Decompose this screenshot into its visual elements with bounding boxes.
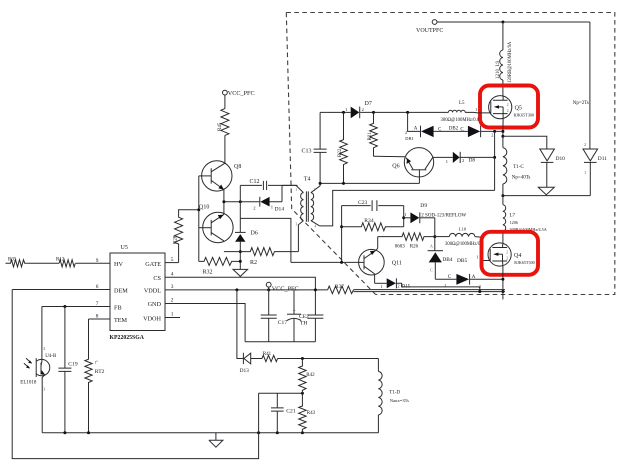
svg-text:1: 1 bbox=[475, 107, 477, 112]
svg-text:VCC_PFC: VCC_PFC bbox=[228, 90, 255, 97]
svg-text:C21: C21 bbox=[286, 408, 296, 414]
svg-text:2 SOD-123/REFLOW: 2 SOD-123/REFLOW bbox=[421, 214, 466, 219]
svg-text:t°: t° bbox=[95, 359, 98, 364]
inductor L5 bbox=[441, 101, 480, 123]
svg-text:3: 3 bbox=[171, 284, 174, 290]
resistor R21 bbox=[368, 112, 378, 156]
svg-text:Q5: Q5 bbox=[515, 106, 522, 112]
svg-text:C23: C23 bbox=[358, 200, 368, 206]
capacitor C23 bbox=[342, 200, 404, 211]
wire D9 to gate row vertical bbox=[434, 218, 436, 251]
wire Q8 emitter to node bbox=[223, 190, 225, 202]
svg-text:300Ω@100MHz/0.8: 300Ω@100MHz/0.8 bbox=[441, 118, 480, 123]
svg-text:VOUTPFC: VOUTPFC bbox=[416, 28, 443, 34]
wire FB pin7 bbox=[42, 306, 110, 308]
svg-text:Q4: Q4 bbox=[514, 253, 521, 259]
svg-text:D15: D15 bbox=[402, 285, 411, 290]
wire Q5 source down bbox=[502, 119, 504, 148]
svg-text:RJK65T300: RJK65T300 bbox=[514, 260, 534, 265]
transistor Q10 bbox=[199, 205, 233, 243]
wire gate drive rail bbox=[320, 111, 491, 114]
svg-text:300Ω@100MHz/0.8: 300Ω@100MHz/0.8 bbox=[445, 242, 484, 247]
wire DEM pin6 (left loop top) bbox=[12, 289, 110, 291]
resistor R45 bbox=[218, 109, 229, 136]
resistor R32 bbox=[199, 257, 241, 275]
svg-text:1: 1 bbox=[171, 312, 174, 318]
svg-text:T1-D: T1-D bbox=[389, 390, 400, 395]
wire Q4 source down bbox=[502, 266, 504, 299]
wire T4 secondary return bbox=[320, 190, 495, 226]
svg-text:TEM: TEM bbox=[114, 317, 128, 324]
wire base line Q8/Q10 bbox=[198, 176, 200, 262]
svg-text:R35: R35 bbox=[8, 258, 17, 263]
svg-text:8: 8 bbox=[96, 313, 99, 319]
diode D15 bbox=[375, 278, 480, 291]
svg-text:Q11: Q11 bbox=[392, 261, 402, 267]
svg-text:1: 1 bbox=[584, 170, 586, 175]
capacitor C21 bbox=[271, 393, 296, 433]
diode D9 bbox=[404, 203, 467, 223]
svg-text:DB1: DB1 bbox=[405, 136, 413, 141]
svg-text:Q10: Q10 bbox=[199, 205, 209, 211]
svg-text:VDOH: VDOH bbox=[143, 315, 161, 322]
svg-text:C13: C13 bbox=[302, 149, 312, 155]
svg-text:VCC_PFC: VCC_PFC bbox=[272, 286, 299, 293]
svg-text:C17: C17 bbox=[278, 320, 288, 326]
resistor R12 bbox=[56, 258, 75, 267]
transistor Q8 bbox=[199, 161, 242, 191]
highlight box around Q5 bbox=[480, 86, 538, 128]
terminal VCC_PFC (top) bbox=[223, 90, 255, 97]
wire D10 branch bbox=[503, 136, 547, 149]
svg-text:2: 2 bbox=[506, 256, 508, 260]
wire C23/R34 left node bbox=[341, 206, 343, 263]
svg-text:2: 2 bbox=[479, 284, 481, 289]
wire Q11 emitter to gate row bbox=[376, 237, 378, 251]
wire GND rail of VCC block bbox=[245, 341, 315, 343]
svg-text:2: 2 bbox=[507, 109, 509, 113]
svg-text:R21: R21 bbox=[368, 132, 373, 141]
svg-text:KP22025SGA: KP22025SGA bbox=[110, 335, 145, 341]
svg-text:1: 1 bbox=[446, 159, 448, 164]
svg-text:DB2: DB2 bbox=[449, 127, 459, 132]
svg-text:3: 3 bbox=[43, 387, 45, 392]
svg-text:VDDL: VDDL bbox=[144, 287, 161, 294]
wire source bus (double line) bbox=[354, 290, 506, 292]
svg-text:7: 7 bbox=[96, 301, 99, 307]
svg-text:R34: R34 bbox=[364, 218, 374, 224]
svg-text:R43: R43 bbox=[307, 411, 316, 416]
resistor R35 bbox=[6, 258, 27, 267]
svg-text:1: 1 bbox=[444, 283, 446, 288]
resistor RT2 (thermistor) bbox=[85, 319, 105, 433]
resistor R37 bbox=[328, 284, 354, 294]
wire Q5 drain bbox=[502, 95, 504, 97]
svg-text:RT2: RT2 bbox=[95, 369, 105, 375]
wire R41 to T1-D bbox=[278, 358, 379, 360]
wire line B (T1-C bottom to D11) bbox=[503, 195, 590, 197]
svg-text:D11: D11 bbox=[598, 156, 607, 162]
svg-text:4: 4 bbox=[171, 271, 174, 277]
wire C23/R34 right node bbox=[403, 206, 405, 227]
wire Q10 collector up to node bbox=[223, 202, 225, 215]
capacitor CE2 (electrolytic) bbox=[287, 290, 309, 342]
svg-text:R22: R22 bbox=[338, 148, 343, 157]
resistor R28 bbox=[173, 208, 200, 262]
diode D10 bbox=[540, 149, 565, 187]
svg-text:1: 1 bbox=[476, 254, 478, 259]
svg-text:6: 6 bbox=[96, 284, 99, 290]
svg-text:D14: D14 bbox=[275, 207, 285, 213]
capacitor CS filter (pin4) bbox=[307, 315, 323, 342]
capacitor C17 bbox=[261, 290, 288, 342]
svg-text:C19: C19 bbox=[68, 361, 78, 367]
resistor R41 bbox=[262, 352, 278, 362]
diode D11 bbox=[583, 142, 607, 196]
capacitor C13 bbox=[302, 112, 327, 185]
wire R12 to HV pin9 bbox=[76, 262, 110, 264]
svg-text:2: 2 bbox=[171, 298, 174, 304]
diode D13 bbox=[240, 353, 262, 374]
capacitor C19 bbox=[58, 307, 77, 433]
svg-text:Q6: Q6 bbox=[392, 164, 399, 170]
svg-text:TH: TH bbox=[300, 320, 307, 326]
wire C12/D14 right vertical bbox=[281, 185, 283, 201]
resistor R22 bbox=[338, 112, 348, 183]
inductor T1-D winding bbox=[378, 359, 409, 433]
diode D6 bbox=[235, 231, 258, 270]
svg-text:R26: R26 bbox=[410, 245, 419, 250]
svg-text:1210 L9: 1210 L9 bbox=[496, 60, 501, 79]
svg-text:U4-B: U4-B bbox=[45, 354, 57, 359]
wire VDDL pin3 bbox=[165, 289, 328, 291]
resistor R2 bbox=[224, 248, 299, 266]
diode DB2 bbox=[449, 126, 503, 138]
op-amp U5 (controller IC KP22025SGA) bbox=[110, 245, 166, 341]
svg-text:D8: D8 bbox=[469, 158, 476, 164]
transformer T4 bbox=[282, 177, 320, 229]
mosfet Q4 (RJK65T300) bbox=[488, 243, 535, 266]
svg-text:R42: R42 bbox=[306, 373, 315, 378]
inductor L7 bbox=[503, 205, 547, 243]
ground (D10) bbox=[538, 187, 554, 195]
highlight box around Q4 bbox=[482, 232, 539, 275]
wire Q6 emitter return (line A) bbox=[320, 182, 419, 184]
wire GND pin2 bbox=[165, 304, 245, 342]
svg-text:4: 4 bbox=[315, 225, 317, 229]
svg-text:2: 2 bbox=[397, 284, 399, 289]
wire DB1 row drop bbox=[408, 112, 421, 131]
terminal VCC_PFC (mid) bbox=[266, 282, 298, 292]
svg-text:L5: L5 bbox=[459, 101, 465, 106]
svg-text:GND: GND bbox=[148, 301, 162, 308]
svg-text:R41: R41 bbox=[263, 352, 272, 357]
svg-text:2: 2 bbox=[462, 158, 464, 163]
svg-text:Np=40Ts: Np=40Ts bbox=[512, 176, 531, 181]
terminal VOUTPFC bbox=[416, 20, 443, 34]
svg-text:2: 2 bbox=[491, 133, 493, 138]
wire rail Np=2Ts branch bbox=[573, 22, 590, 149]
wire C12 left vertical to D6 bbox=[239, 185, 241, 232]
diode D14 bbox=[253, 197, 284, 213]
diode DB4 bbox=[428, 243, 453, 279]
resistor R43 bbox=[299, 393, 316, 433]
wire node row Q8em/Q10col/D14 bbox=[224, 201, 282, 203]
svg-text:D9: D9 bbox=[420, 203, 427, 209]
svg-text:Np=2Ts: Np=2Ts bbox=[573, 101, 589, 106]
diode DB1 bbox=[405, 126, 468, 141]
svg-text:R2: R2 bbox=[250, 260, 257, 266]
svg-text:1206: 1206 bbox=[510, 220, 518, 225]
wire top rail bbox=[437, 21, 590, 23]
ground (under D6/R32) bbox=[233, 269, 248, 276]
svg-text:2: 2 bbox=[507, 103, 509, 107]
svg-text:C: C bbox=[430, 268, 433, 273]
svg-text:2: 2 bbox=[405, 130, 407, 135]
wire GATE pin5 stub bbox=[165, 262, 179, 264]
svg-text:2: 2 bbox=[584, 142, 586, 147]
svg-text:1: 1 bbox=[381, 284, 383, 289]
inductor L10 bbox=[435, 227, 490, 261]
resistor R34 bbox=[342, 218, 404, 231]
wire R21 to Q6 base bbox=[374, 155, 406, 158]
svg-text:A: A bbox=[414, 127, 418, 132]
svg-text:CS: CS bbox=[153, 275, 161, 282]
svg-text:D6: D6 bbox=[251, 231, 258, 237]
svg-text:L7: L7 bbox=[510, 214, 516, 219]
resistor R42 bbox=[299, 359, 315, 394]
inductor L9 bbox=[496, 22, 513, 96]
svg-text:L10: L10 bbox=[459, 227, 467, 232]
svg-text:DEM: DEM bbox=[114, 287, 128, 294]
svg-text:R32: R32 bbox=[203, 270, 213, 276]
ground (rail) bbox=[209, 433, 223, 447]
wire Q11 collector down bbox=[374, 274, 376, 283]
svg-text:U5: U5 bbox=[121, 245, 128, 251]
wire VDDL drop to D13 bbox=[237, 290, 244, 359]
transistor Q6 bbox=[392, 148, 433, 184]
svg-text:120RB@100MHz/9A: 120RB@100MHz/9A bbox=[508, 41, 513, 83]
svg-text:EL1018: EL1018 bbox=[20, 381, 37, 386]
wire TEM pin8 bbox=[89, 318, 111, 320]
svg-text:GATE: GATE bbox=[145, 261, 161, 268]
svg-text:Q8: Q8 bbox=[234, 164, 241, 170]
wire VDOH pin1 stub bbox=[165, 317, 180, 319]
diode DB5 bbox=[435, 258, 503, 289]
svg-text:R28: R28 bbox=[173, 235, 178, 244]
svg-text:A: A bbox=[472, 275, 476, 280]
transistor Q11 bbox=[291, 249, 402, 275]
svg-text:2: 2 bbox=[314, 188, 316, 192]
optocoupler U4-B EL1018 bbox=[20, 346, 57, 433]
svg-text:0603: 0603 bbox=[395, 245, 406, 250]
inductor T1-C winding bbox=[503, 148, 531, 205]
svg-text:A: A bbox=[430, 243, 433, 248]
wire analog ground rail bbox=[42, 432, 378, 434]
svg-text:D13: D13 bbox=[240, 368, 250, 374]
svg-text:D7: D7 bbox=[365, 101, 372, 107]
wire R35 to R12 bbox=[27, 262, 59, 264]
svg-text:DB4: DB4 bbox=[442, 257, 452, 263]
wire CS pin4 bbox=[165, 277, 315, 315]
wire node to Q11 base (via x290.9) bbox=[240, 218, 291, 262]
svg-text:1: 1 bbox=[345, 107, 347, 112]
svg-text:D10: D10 bbox=[556, 156, 566, 162]
wire FB drop to optocoupler bbox=[41, 307, 43, 358]
svg-text:DB5: DB5 bbox=[457, 258, 467, 264]
svg-text:4: 4 bbox=[43, 346, 45, 351]
resistor R26 bbox=[378, 233, 435, 250]
wire DB/D8 vertical bbox=[494, 131, 496, 190]
svg-text:R12: R12 bbox=[56, 258, 65, 263]
svg-text:2: 2 bbox=[362, 107, 364, 112]
svg-text:R45: R45 bbox=[218, 122, 223, 131]
svg-text:T4: T4 bbox=[304, 177, 311, 183]
diode D8 bbox=[433, 152, 495, 164]
svg-text:1: 1 bbox=[404, 212, 406, 217]
svg-text:3: 3 bbox=[296, 223, 298, 227]
dashed isolation boundary bbox=[286, 13, 615, 295]
svg-text:2: 2 bbox=[506, 250, 508, 254]
diode D7 bbox=[345, 101, 372, 118]
wire divider mid row bbox=[259, 392, 303, 394]
wire T4 primary bottom lead bbox=[298, 221, 303, 252]
capacitor C12 bbox=[240, 179, 297, 190]
svg-text:+: + bbox=[293, 308, 296, 314]
svg-text:HV: HV bbox=[114, 261, 123, 268]
svg-text:1: 1 bbox=[295, 188, 297, 192]
svg-text:C12: C12 bbox=[250, 179, 260, 185]
svg-text:Naux=3Ts: Naux=3Ts bbox=[390, 398, 409, 403]
svg-text:FB: FB bbox=[114, 304, 122, 311]
svg-text:RJK65T300: RJK65T300 bbox=[514, 113, 534, 118]
svg-text:5: 5 bbox=[171, 257, 174, 263]
svg-text:T1-C: T1-C bbox=[513, 165, 524, 170]
svg-text:R37: R37 bbox=[335, 284, 344, 290]
wire VCC_PFC to R45 bbox=[224, 95, 226, 109]
mosfet Q5 (RJK65T300) bbox=[489, 96, 534, 119]
wire DEM outer loop bbox=[12, 290, 258, 459]
wire R45 to Q8 collector bbox=[224, 135, 226, 163]
